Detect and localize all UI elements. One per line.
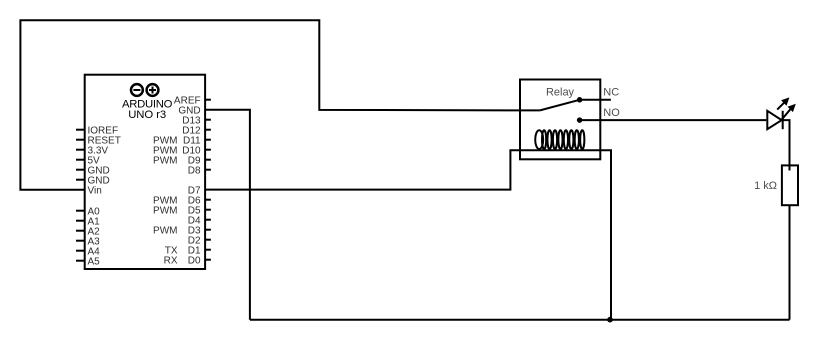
pin stub D5 (205, 209, 211, 211)
pin stub AREF (205, 99, 211, 101)
svg-text:PWM: PWM (153, 155, 177, 166)
svg-text:NC: NC (603, 87, 619, 99)
Arduino right pin stubs (205, 100, 211, 260)
relay coil L1 (535, 130, 584, 149)
pin stub D4 (205, 219, 211, 221)
pin stub A2 (76, 230, 85, 232)
wire LED cathode to resistor (783, 120, 790, 170)
wire D7 to relay coil and coil to ground rail (205, 150, 611, 319)
wire NO to LED anode (580, 119, 767, 121)
svg-text:Vin: Vin (88, 185, 102, 196)
pin stub D13 (205, 119, 211, 121)
svg-text:D0: D0 (188, 255, 201, 266)
svg-text:Relay: Relay (546, 87, 575, 99)
pin stub 3.3V (76, 149, 85, 151)
pin stub D10 (205, 149, 211, 151)
wire Vin to relay common (top loop) (20, 20, 540, 189)
svg-text:PWM: PWM (153, 205, 177, 216)
svg-text:RX: RX (164, 255, 178, 266)
resistor R1 box (782, 165, 798, 205)
LED arrow 2 (781, 105, 795, 121)
svg-text:1 kΩ: 1 kΩ (754, 180, 777, 192)
pin stub D12 (205, 129, 211, 131)
pin stub D2 (205, 239, 211, 241)
relay K1 box (520, 80, 600, 160)
pin stub A3 (76, 240, 85, 242)
LED arrow 1 (777, 98, 788, 109)
svg-text:PWM: PWM (153, 225, 177, 236)
pin stub IOREF (76, 129, 85, 131)
pin stub A0 (76, 210, 85, 212)
relay NO contact dot (577, 117, 583, 123)
LED D1 triangle (767, 111, 781, 129)
pin stub D1 (205, 249, 211, 251)
pin stub D6 (205, 199, 211, 201)
pin stub D11 (205, 139, 211, 141)
wire switch arm (540, 100, 580, 111)
wire NC stub (580, 99, 611, 101)
svg-text:UNO r3: UNO r3 (128, 109, 166, 121)
junction dot ground rail / coil (607, 317, 613, 323)
pin stub D3 (205, 229, 211, 231)
Arduino left pin stubs (76, 130, 85, 261)
Arduino right pin qualifier labels (PWM/TX/RX) (153, 135, 178, 266)
pin stub A5 (76, 260, 85, 262)
wire resistor to ground rail (789, 205, 791, 320)
pin stub D9 (205, 159, 211, 161)
wire GND to bottom rail (205, 110, 250, 320)
Arduino right pin labels (174, 95, 201, 266)
pin stub A1 (76, 220, 85, 222)
Arduino left pin labels (88, 125, 121, 267)
pin stub D8 (205, 169, 211, 171)
Arduino U1 box (85, 75, 205, 269)
pin stub D0 (205, 259, 211, 261)
Arduino logo (131, 84, 158, 96)
LED cathode bar (782, 111, 784, 129)
pin stub A4 (76, 250, 85, 252)
relay NC contact dot (577, 97, 583, 103)
svg-text:D8: D8 (188, 165, 201, 176)
svg-text:NO: NO (603, 107, 620, 119)
pin stub GND (76, 179, 85, 181)
pin stub 5V (76, 159, 85, 161)
wire bottom ground rail (250, 319, 790, 321)
pin stub RESET (76, 139, 85, 141)
svg-text:A5: A5 (88, 256, 101, 267)
pin stub GND (76, 169, 85, 171)
